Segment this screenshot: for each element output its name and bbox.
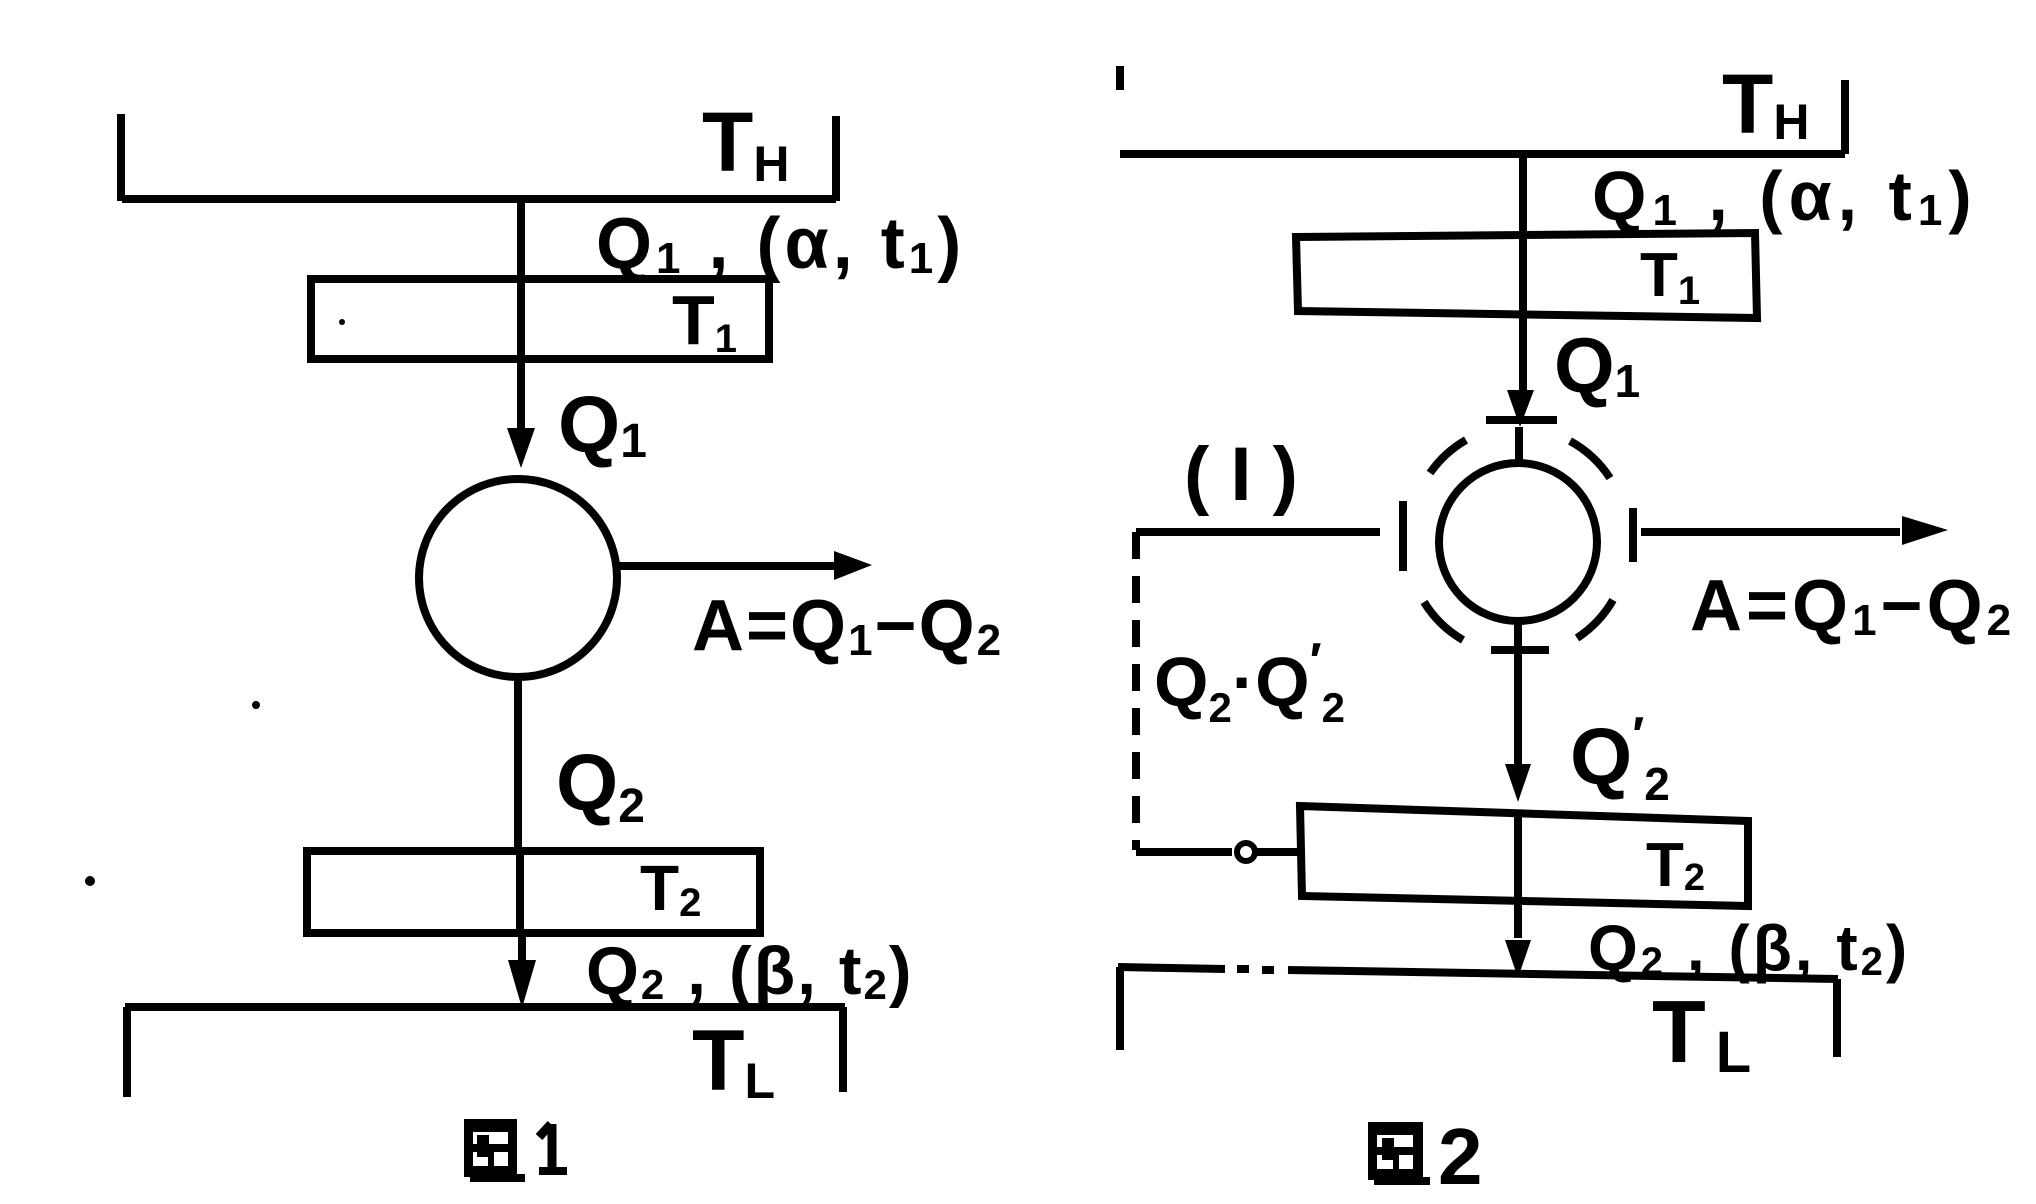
bypass junction small circle (fig2) [1237, 843, 1255, 861]
svg-text:Q2 , (β, t2): Q2 , (β, t2) [1588, 912, 1910, 984]
arrowhead Q2' into T2 (fig2) [1505, 764, 1531, 802]
svg-text:TH: TH [1722, 57, 1809, 151]
dashed shell bottom tick [1491, 646, 1549, 654]
work output arrow A (fig1) [618, 562, 840, 570]
stray ink dot 3 [339, 319, 345, 325]
arrowhead Q2 into TL rail (fig1) [508, 960, 536, 1008]
short wire below arrowhead to circle (fig2) [1515, 427, 1523, 464]
svg-text:Q2 , (β, t2): Q2 , (β, t2) [586, 933, 914, 1009]
bypass bracket bottom wire (fig2) [1136, 848, 1232, 856]
wire through T2 box (fig1) [516, 851, 524, 933]
arrowhead of work arrow A (fig2) [1902, 516, 1948, 545]
cold reservoir rail TL (fig1) [125, 1003, 845, 1011]
cold reservoir rail TL (fig2) [1118, 967, 1225, 969]
svg-text:Q2: Q2 [556, 738, 645, 833]
wire through T2 box (fig2) [1514, 814, 1522, 899]
heat exchanger T1 box (fig1) [311, 279, 769, 359]
stray ink dot 2 [85, 876, 95, 886]
hot reservoir rail TH (fig2) [1120, 150, 1845, 158]
bypass wire into T2 box (fig2) [1257, 848, 1301, 856]
arrowhead Q1 into engine (fig2) [1507, 390, 1534, 427]
hot reservoir rail TH (fig1) [122, 195, 836, 203]
wire from TH rail down to T1 exchanger (fig1) [517, 199, 525, 432]
svg-text:T2: T2 [640, 852, 701, 925]
wire engine to T2 (fig1) [514, 677, 522, 851]
engine circle (fig1) [419, 479, 617, 677]
wire TH rail to T1 box (fig2) [1519, 154, 1527, 392]
dashed shell left tick [1399, 501, 1407, 571]
svg-text:T1: T1 [1640, 241, 1700, 313]
wire T2 to TL rail (fig2) [1514, 899, 1522, 938]
svg-text:Q1: Q1 [1554, 321, 1640, 409]
dashed shell NE arc [1570, 441, 1610, 478]
svg-text:Q1 , (α, t1): Q1 , (α, t1) [1592, 157, 1978, 235]
svg-text:TH: TH [702, 95, 789, 192]
svg-text:TL: TL [1652, 982, 1751, 1085]
svg-text:Q′2: Q′2 [1570, 707, 1670, 810]
bypass bracket vertical dashed wire (fig2) [1132, 532, 1140, 850]
work output arrow wire A (fig2) [1641, 528, 1900, 536]
heat exchanger T1 box (fig2) [1296, 233, 1757, 318]
svg-text:Q1: Q1 [558, 380, 647, 469]
engine circle (fig2) [1439, 463, 1597, 621]
dashed shell SE arc [1577, 600, 1613, 638]
wire engine to T2 with arrow (fig2) [1514, 621, 1522, 764]
dashed shell right tick [1629, 508, 1637, 562]
svg-text:Q1 , (α, t1): Q1 , (α, t1) [596, 204, 965, 284]
arrowhead Q1 into engine (fig1) [507, 428, 535, 468]
arrowhead Q2 into TL rail (fig2) [1505, 940, 1531, 978]
svg-text:A=Q1−Q2: A=Q1−Q2 [692, 586, 1003, 666]
caption glyph TU (fig2) [1368, 1122, 1430, 1185]
svg-text:TL: TL [692, 1013, 775, 1109]
dashed shell SW arc [1424, 602, 1463, 640]
wire T2 to TL rail with arrow Q2 (fig1) [518, 933, 526, 962]
dashed shell NW arc [1430, 440, 1466, 473]
arrowhead of work arrow A (fig1) [834, 551, 872, 580]
stray ink dot 1 [252, 701, 260, 709]
caption glyph TU (fig1) [464, 1119, 525, 1182]
dashed shell top tick [1486, 416, 1557, 424]
svg-text:2: 2 [1438, 1112, 1483, 1201]
heat exchanger T2 box (fig2) [1300, 806, 1748, 906]
svg-text:T2: T2 [1646, 831, 1705, 900]
svg-text:A=Q1−Q2: A=Q1−Q2 [1690, 566, 2015, 646]
svg-text:( I ): ( I ) [1184, 432, 1298, 517]
caption numeral 1 (fig1) [539, 1124, 567, 1171]
svg-text:T1: T1 [672, 281, 737, 361]
bypass bracket top wire (fig2) [1136, 528, 1380, 536]
svg-text:Q2·Q′2: Q2·Q′2 [1154, 633, 1345, 731]
heat exchanger T2 box (fig1) [307, 851, 760, 933]
